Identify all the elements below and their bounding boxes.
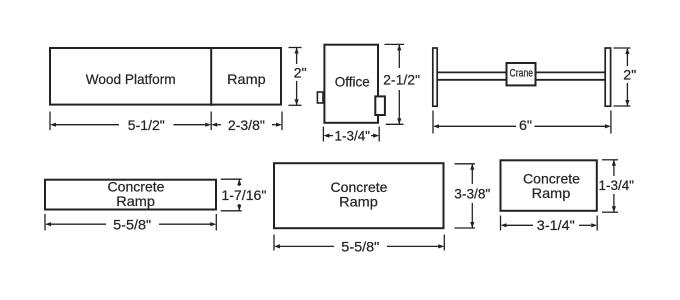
svg-text:Office: Office: [335, 73, 370, 89]
svg-text:5-5/8": 5-5/8": [341, 238, 379, 254]
svg-text:6": 6": [519, 117, 532, 133]
svg-text:3-3/8": 3-3/8": [454, 185, 490, 201]
svg-text:5-1/2": 5-1/2": [128, 117, 165, 133]
svg-text:Ramp: Ramp: [227, 71, 266, 87]
svg-text:Ramp: Ramp: [532, 185, 571, 201]
svg-text:1-7/16": 1-7/16": [221, 187, 266, 203]
svg-text:2-1/2": 2-1/2": [383, 71, 420, 87]
svg-text:2": 2": [294, 64, 307, 80]
svg-text:Ramp: Ramp: [339, 194, 378, 210]
svg-text:Wood Platform: Wood Platform: [86, 71, 176, 87]
svg-text:Ramp: Ramp: [116, 193, 155, 209]
svg-text:1-3/4": 1-3/4": [335, 128, 371, 144]
svg-text:1-3/4": 1-3/4": [599, 177, 635, 193]
svg-text:2": 2": [623, 66, 636, 82]
svg-text:Crane: Crane: [510, 68, 534, 80]
svg-text:5-5/8": 5-5/8": [113, 216, 151, 232]
svg-text:3-1/4": 3-1/4": [537, 217, 575, 233]
svg-text:2-3/8": 2-3/8": [228, 117, 265, 133]
